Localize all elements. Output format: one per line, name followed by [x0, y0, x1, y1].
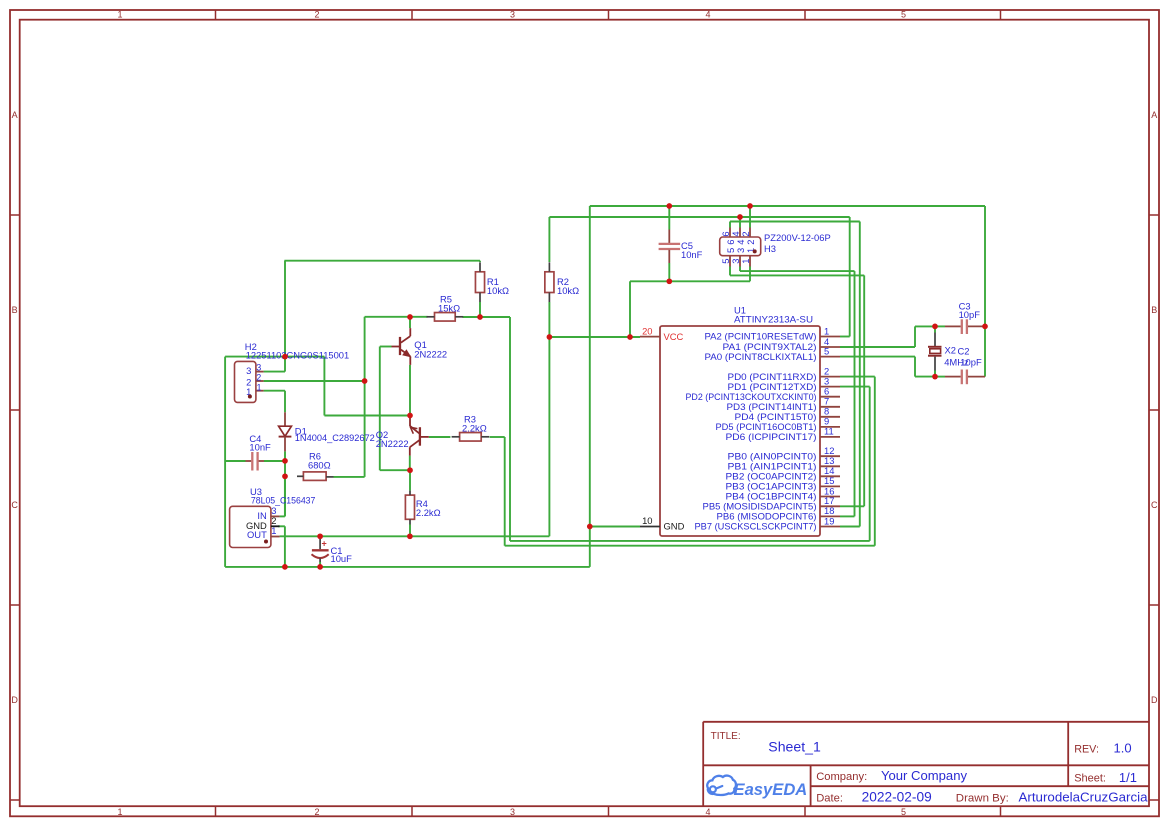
wire [409, 456, 411, 471]
resistor R6 [297, 451, 334, 481]
wire [284, 391, 286, 413]
wire [729, 267, 731, 276]
wire [409, 416, 411, 418]
svg-text:TITLE:: TITLE: [711, 731, 741, 742]
svg-text:Company:: Company: [816, 771, 867, 783]
wire [334, 476, 365, 478]
wire [364, 317, 366, 477]
resistor R4 [405, 491, 440, 525]
svg-text:2022-02-09: 2022-02-09 [862, 789, 932, 804]
wire [915, 325, 935, 327]
junction [282, 564, 288, 570]
wire [915, 376, 935, 378]
junction [477, 314, 483, 320]
svg-text:PZ200V-12-06P: PZ200V-12-06P [764, 232, 831, 243]
svg-text:5: 5 [824, 345, 829, 356]
svg-text:78L05_C156437: 78L05_C156437 [251, 494, 316, 505]
junction [362, 378, 368, 384]
wire [840, 386, 870, 388]
wire [935, 325, 945, 327]
wire [278, 525, 285, 527]
wire [863, 275, 865, 506]
wire [225, 566, 590, 568]
connector H3 [720, 228, 831, 267]
wire [409, 365, 411, 416]
junction [932, 324, 938, 330]
wire [729, 222, 731, 228]
crystal X2 [928, 333, 969, 371]
wire [914, 357, 916, 377]
wire [548, 302, 550, 536]
wire [324, 415, 410, 417]
title block [703, 722, 1149, 806]
svg-text:20: 20 [642, 325, 652, 336]
wire [730, 221, 860, 223]
svg-text:2: 2 [314, 807, 319, 817]
junction [666, 278, 672, 284]
wire [668, 280, 670, 282]
svg-text:ATTINY2313A-SU: ATTINY2313A-SU [734, 314, 813, 325]
junction [317, 564, 323, 570]
wire [934, 326, 936, 332]
svg-text:Your Company: Your Company [881, 768, 968, 783]
EasyEDA logo [707, 776, 807, 800]
svg-text:19: 19 [824, 515, 834, 526]
svg-text:1: 1 [117, 10, 122, 20]
svg-text:1: 1 [117, 807, 122, 817]
capacitor C4 [246, 433, 272, 471]
svg-text:Sheet_1: Sheet_1 [768, 739, 821, 754]
svg-text:OUT: OUT [247, 529, 267, 540]
wire [284, 261, 286, 357]
svg-text:3: 3 [510, 10, 515, 20]
junction [982, 324, 988, 330]
svg-text:1/1: 1/1 [1119, 770, 1137, 785]
regulator U3 [230, 486, 316, 548]
svg-text:A: A [1151, 110, 1157, 120]
capacitor C3 [945, 301, 985, 335]
resistor R1 [475, 262, 509, 302]
wire [935, 376, 945, 378]
svg-text:10uF: 10uF [331, 553, 353, 564]
wire [590, 205, 985, 207]
svg-text:B: B [12, 305, 18, 315]
svg-text:3: 3 [246, 365, 251, 376]
wire [740, 270, 855, 272]
svg-text:H3: H3 [764, 243, 776, 254]
svg-text:PB7 (USCKSCLSCKPCINT7): PB7 (USCKSCLSCKPCINT7) [695, 521, 817, 532]
svg-text:680Ω: 680Ω [308, 460, 331, 471]
svg-text:C: C [1151, 500, 1158, 510]
svg-text:15kΩ: 15kΩ [438, 303, 460, 314]
wire [590, 526, 640, 528]
svg-text:A: A [12, 110, 18, 120]
svg-text:Drawn By:: Drawn By: [956, 792, 1009, 804]
junction [547, 334, 553, 340]
wire [479, 261, 481, 262]
svg-text:10: 10 [642, 515, 652, 526]
svg-text:10nF: 10nF [681, 249, 703, 260]
wire [849, 217, 851, 337]
junction [932, 374, 938, 380]
IC U1 ATTINY2313A-SU [640, 305, 840, 537]
wire [739, 267, 741, 272]
junction [737, 214, 743, 220]
junction [282, 354, 288, 360]
wire [589, 206, 591, 567]
svg-text:1.0: 1.0 [1114, 741, 1132, 756]
svg-text:EasyEDA: EasyEDA [734, 780, 808, 799]
wire [284, 357, 286, 372]
svg-text:10kΩ: 10kΩ [487, 285, 509, 296]
svg-text:C: C [11, 500, 18, 510]
wire [463, 316, 481, 318]
capacitor C5 [659, 230, 703, 264]
junction [317, 533, 323, 539]
wire [840, 356, 915, 358]
junction [282, 458, 288, 464]
wire [859, 222, 861, 527]
wire [409, 525, 411, 537]
svg-text:2: 2 [314, 10, 319, 20]
diode D1 [279, 412, 375, 451]
svg-text:12251102CNG0S115001: 12251102CNG0S115001 [246, 350, 350, 361]
wire [549, 336, 640, 338]
junction [627, 334, 633, 340]
transistor Q2 [376, 418, 429, 456]
svg-text:2: 2 [256, 373, 261, 383]
svg-text:PA2 (PCINT10RESETdW): PA2 (PCINT10RESETdW) [705, 331, 817, 342]
wire [264, 380, 365, 382]
svg-text:1N4004_C2892672: 1N4004_C2892672 [295, 432, 375, 443]
wire [284, 451, 286, 516]
svg-text:2N2222: 2N2222 [376, 438, 409, 449]
svg-text:1: 1 [824, 325, 829, 336]
wire [504, 437, 506, 546]
wire [380, 469, 410, 471]
svg-text:C2: C2 [958, 346, 970, 357]
capacitor C1 polarized [312, 538, 353, 564]
svg-text:2.2kΩ: 2.2kΩ [462, 423, 487, 434]
svg-text:4MHz: 4MHz [944, 356, 969, 367]
wire [264, 460, 285, 462]
svg-text:3: 3 [510, 807, 515, 817]
svg-text:D: D [11, 695, 18, 705]
svg-text:PD6 (ICPIPCINT17): PD6 (ICPIPCINT17) [726, 431, 817, 442]
svg-text:4: 4 [705, 807, 710, 817]
wire [480, 316, 510, 318]
wire [914, 326, 916, 347]
wire [548, 217, 550, 262]
svg-text:10kΩ: 10kΩ [557, 285, 579, 296]
wire [869, 387, 871, 541]
wire [840, 515, 855, 517]
junction [282, 473, 288, 479]
svg-text:3: 3 [256, 362, 261, 372]
wire [749, 267, 751, 282]
svg-text:Date:: Date: [816, 792, 843, 804]
wire [840, 376, 875, 378]
wire [549, 216, 849, 218]
svg-text:4: 4 [705, 10, 710, 20]
svg-text:REV:: REV: [1074, 744, 1099, 756]
wire [284, 526, 286, 567]
wire [630, 280, 750, 282]
wire [739, 217, 741, 228]
wire [284, 260, 480, 262]
wire [319, 562, 321, 567]
transistor Q1 [392, 328, 448, 365]
wire [840, 346, 915, 348]
junction [587, 524, 593, 530]
svg-text:2N2222: 2N2222 [414, 348, 447, 359]
wire [280, 535, 550, 537]
resistor R5 [427, 294, 464, 322]
wire [319, 536, 321, 538]
wire [224, 357, 226, 567]
svg-text:D: D [1151, 695, 1158, 705]
wire [629, 281, 631, 337]
svg-text:+: + [322, 538, 327, 548]
wire [323, 357, 325, 416]
wire [284, 476, 286, 516]
svg-text:1: 1 [257, 383, 262, 393]
svg-text:10nF: 10nF [249, 442, 271, 453]
svg-text:GND: GND [664, 521, 685, 532]
wire [730, 274, 864, 276]
wire [984, 206, 986, 377]
svg-text:2.2kΩ: 2.2kΩ [416, 507, 441, 518]
wire [409, 317, 411, 328]
svg-text:10pF: 10pF [959, 309, 981, 320]
wire [840, 336, 850, 338]
wire [840, 526, 860, 528]
wire [365, 316, 428, 318]
wire [509, 317, 511, 541]
wire [225, 356, 324, 358]
wire [379, 347, 381, 471]
connector H2 [235, 341, 350, 402]
wire [668, 263, 670, 281]
svg-text:B: B [1151, 305, 1157, 315]
svg-text:11: 11 [824, 426, 834, 437]
svg-text:5: 5 [901, 807, 906, 817]
capacitor C2 [945, 346, 985, 385]
svg-text:X2: X2 [945, 344, 956, 355]
wire [874, 377, 876, 546]
wire [380, 346, 392, 348]
wire [854, 271, 856, 516]
junction [407, 467, 413, 473]
wire [264, 371, 285, 373]
svg-text:Sheet:: Sheet: [1074, 773, 1106, 785]
svg-text:2: 2 [740, 231, 751, 236]
wire [749, 206, 751, 228]
wire [505, 545, 875, 547]
resistor R2 [545, 262, 579, 302]
junction [666, 203, 672, 209]
svg-text:1: 1 [740, 258, 751, 263]
wire [668, 206, 670, 230]
resistor R3 [452, 414, 490, 442]
wire [934, 371, 936, 377]
wire [225, 460, 245, 462]
svg-text:1: 1 [271, 525, 276, 536]
wire [409, 470, 411, 490]
junction [407, 413, 413, 419]
junction [407, 314, 413, 320]
junction [747, 203, 753, 209]
junction [407, 533, 413, 539]
svg-text:VCC: VCC [664, 331, 684, 342]
svg-text:ArturodelaCruzGarcia: ArturodelaCruzGarcia [1019, 790, 1149, 805]
svg-text:5: 5 [901, 10, 906, 20]
svg-text:PA0 (PCINT8CLKIXTAL1): PA0 (PCINT8CLKIXTAL1) [705, 351, 817, 362]
wire [479, 302, 481, 317]
wire [490, 436, 505, 438]
wire [280, 515, 285, 517]
wire [840, 505, 864, 507]
wire [264, 390, 285, 392]
wire [429, 436, 451, 438]
wire [510, 540, 870, 542]
